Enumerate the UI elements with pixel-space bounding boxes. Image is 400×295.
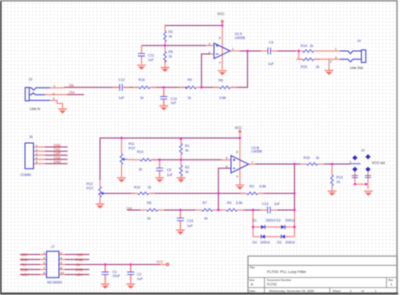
- svg-text:1: 1: [232, 47, 234, 51]
- svg-text:1k: 1k: [169, 35, 173, 39]
- svg-text:1k: 1k: [336, 180, 340, 184]
- svg-text:C10: C10: [187, 219, 193, 223]
- svg-text:8: 8: [236, 150, 238, 154]
- svg-text:+15V: +15V: [21, 273, 30, 277]
- svg-text:C13: C13: [262, 202, 268, 206]
- svg-text:4: 4: [219, 60, 221, 64]
- svg-text:+5V: +5V: [21, 263, 28, 267]
- svg-text:1N914: 1N914: [285, 219, 295, 223]
- svg-text:J6: J6: [29, 135, 33, 139]
- svg-text:R10: R10: [134, 185, 140, 189]
- svg-text:Line Out: Line Out: [350, 66, 363, 70]
- svg-text:R7: R7: [203, 201, 207, 205]
- svg-text:VCC: VCC: [235, 126, 243, 130]
- svg-text:3: 3: [43, 256, 45, 260]
- svg-text:VCC: VCC: [156, 260, 164, 264]
- svg-text:LM358: LM358: [252, 150, 262, 154]
- svg-text:7: 7: [43, 266, 45, 270]
- svg-text:GND: GND: [21, 258, 29, 262]
- svg-text:R4: R4: [227, 201, 231, 205]
- svg-text:D2: D2: [276, 219, 280, 223]
- svg-text:POT: POT: [129, 147, 136, 151]
- svg-text:-15V: -15V: [21, 253, 29, 257]
- svg-text:1k: 1k: [316, 156, 320, 160]
- svg-text:R2: R2: [185, 166, 189, 170]
- svg-text:C2: C2: [137, 272, 141, 276]
- svg-text:Wednesday, November 04, 2009: Wednesday, November 04, 2009: [269, 289, 314, 293]
- svg-text:1k: 1k: [140, 96, 144, 100]
- svg-text:1N914: 1N914: [285, 240, 295, 244]
- svg-text:COMM: COMM: [20, 173, 31, 177]
- svg-text:C12: C12: [119, 78, 125, 82]
- svg-text:R16: R16: [139, 78, 145, 82]
- svg-text:of: of: [361, 289, 364, 293]
- svg-text:1: 1: [335, 47, 337, 51]
- svg-text:VCO out: VCO out: [372, 161, 385, 165]
- svg-text:C14: C14: [171, 97, 177, 101]
- svg-text:1uF: 1uF: [274, 202, 280, 206]
- svg-text:4: 4: [60, 256, 62, 260]
- svg-text:1uF: 1uF: [148, 58, 154, 62]
- svg-text:5: 5: [43, 261, 45, 265]
- svg-text:C11: C11: [148, 53, 154, 57]
- svg-text:R14: R14: [301, 44, 307, 48]
- svg-text:8: 8: [60, 266, 62, 270]
- svg-text:2: 2: [330, 59, 332, 63]
- svg-text:J7: J7: [51, 245, 55, 249]
- svg-text:Title: Title: [250, 265, 256, 269]
- svg-text:-15V: -15V: [76, 273, 84, 277]
- svg-text:R15: R15: [304, 156, 310, 160]
- svg-text:1: 1: [43, 251, 45, 255]
- svg-text:1k: 1k: [310, 44, 314, 48]
- svg-text:R5: R5: [169, 50, 173, 54]
- svg-text:POT: POT: [87, 187, 94, 191]
- svg-text:R6: R6: [147, 201, 151, 205]
- svg-text:D1: D1: [252, 219, 256, 223]
- svg-text:Out: Out: [127, 206, 132, 210]
- svg-text:FLT03: FLT03: [267, 282, 277, 286]
- svg-text:Sheet: Sheet: [333, 289, 341, 293]
- svg-text:2: 2: [209, 50, 211, 54]
- svg-text:MC34063: MC34063: [47, 281, 62, 285]
- svg-text:1k: 1k: [204, 217, 208, 221]
- svg-text:R11: R11: [129, 142, 135, 146]
- svg-text:1uF: 1uF: [171, 101, 177, 105]
- svg-text:R15: R15: [301, 65, 307, 69]
- svg-text:1uF: 1uF: [167, 173, 173, 177]
- svg-text:J2: J2: [361, 148, 365, 152]
- svg-text:1uF: 1uF: [187, 224, 193, 228]
- svg-text:7: 7: [252, 160, 254, 164]
- svg-text:6.8k: 6.8k: [236, 201, 243, 205]
- svg-text:1k: 1k: [188, 96, 192, 100]
- svg-text:C4: C4: [269, 41, 273, 45]
- svg-text:R2: R2: [169, 30, 173, 34]
- svg-text:6: 6: [226, 165, 228, 169]
- svg-text:Out: Out: [69, 91, 74, 95]
- svg-text:10: 10: [60, 271, 64, 275]
- svg-text:GND: GND: [21, 268, 29, 272]
- svg-text:1N914: 1N914: [266, 219, 276, 223]
- svg-text:GND: GND: [76, 268, 84, 272]
- svg-text:3: 3: [335, 56, 337, 60]
- svg-text:GND: GND: [76, 258, 84, 262]
- svg-text:3: 3: [209, 42, 211, 46]
- svg-text:1k: 1k: [148, 185, 152, 189]
- svg-text:Line In: Line In: [30, 107, 40, 111]
- svg-text:6: 6: [60, 261, 62, 265]
- svg-text:1: 1: [350, 289, 352, 293]
- svg-text:1uF: 1uF: [268, 62, 274, 66]
- svg-text:2k: 2k: [316, 65, 320, 69]
- svg-text:8: 8: [219, 36, 221, 40]
- svg-text:C8: C8: [167, 168, 171, 172]
- svg-text:J4: J4: [357, 39, 361, 43]
- svg-text:2: 2: [53, 92, 55, 96]
- svg-text:R12: R12: [87, 182, 93, 186]
- svg-text:R13: R13: [336, 176, 342, 180]
- svg-text:R14: R14: [137, 150, 143, 154]
- svg-text:1k: 1k: [139, 167, 143, 171]
- svg-text:6.8k: 6.8k: [220, 96, 227, 100]
- svg-text:D3: D3: [277, 240, 281, 244]
- svg-text:R8: R8: [219, 79, 223, 83]
- svg-text:1: 1: [54, 84, 56, 88]
- svg-text:R1: R1: [185, 144, 189, 148]
- svg-text:6.8k: 6.8k: [260, 185, 267, 189]
- svg-text:R9: R9: [188, 78, 192, 82]
- svg-text:D4: D4: [252, 240, 256, 244]
- svg-text:J3: J3: [29, 77, 33, 81]
- svg-text:Sig: Sig: [69, 83, 74, 87]
- svg-text:Date:: Date:: [249, 289, 256, 293]
- svg-text:+15V: +15V: [76, 253, 85, 257]
- svg-text:1k: 1k: [185, 149, 189, 153]
- svg-text:1k: 1k: [185, 170, 189, 174]
- svg-text:22uF: 22uF: [113, 274, 121, 278]
- svg-text:5: 5: [226, 156, 228, 160]
- svg-text:2: 2: [60, 251, 62, 255]
- svg-text:4: 4: [236, 174, 238, 178]
- svg-text:5: 5: [36, 160, 38, 164]
- svg-text:1N914: 1N914: [260, 240, 270, 244]
- svg-text:3: 3: [53, 97, 55, 101]
- svg-text:1k: 1k: [147, 217, 151, 221]
- svg-text:1: 1: [375, 289, 377, 293]
- svg-text:-5V: -5V: [76, 263, 82, 267]
- svg-text:1uF: 1uF: [119, 96, 125, 100]
- svg-text:LM358: LM358: [235, 36, 245, 40]
- svg-text:FLT03: PLL Loop Filter: FLT03: PLL Loop Filter: [267, 269, 307, 274]
- svg-text:R3: R3: [250, 185, 254, 189]
- svg-text:1uF: 1uF: [137, 277, 143, 281]
- svg-text:GND: GND: [54, 160, 62, 164]
- svg-text:1: 1: [349, 160, 351, 164]
- svg-text:1: 1: [390, 282, 392, 286]
- svg-text:9: 9: [43, 271, 45, 275]
- svg-text:VCC: VCC: [217, 12, 225, 16]
- svg-text:1k: 1k: [169, 55, 173, 59]
